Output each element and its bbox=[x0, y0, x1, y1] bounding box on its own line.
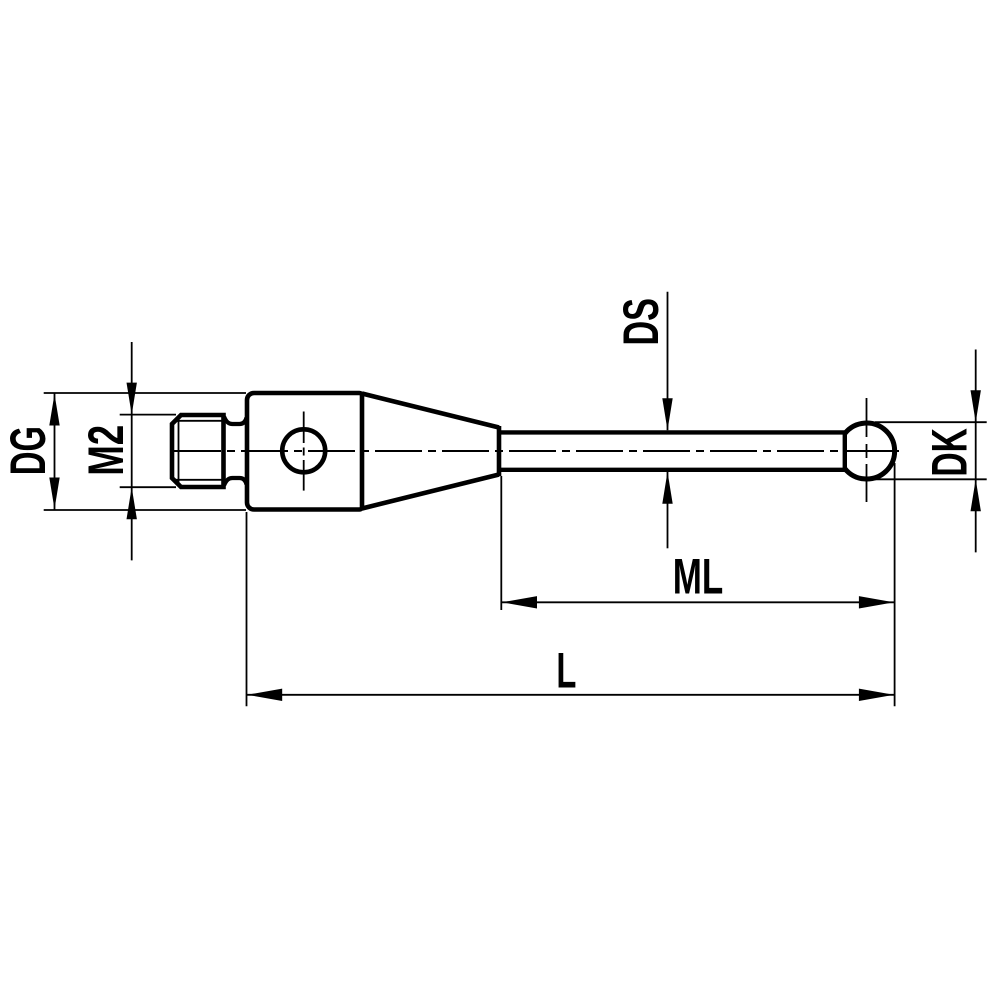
svg-text:L: L bbox=[556, 643, 576, 699]
thread minor diameter line top bbox=[173, 420, 223, 422]
dimension DK extension line top bbox=[875, 421, 987, 423]
dimension DG line bbox=[54, 393, 56, 510]
ball (probe tip sphere) bbox=[845, 423, 895, 479]
dimension ML line bbox=[501, 601, 894, 603]
dimension DS line lower bbox=[667, 472, 669, 549]
dimension M2 line bbox=[131, 342, 133, 560]
ball vertical centerline bbox=[866, 398, 868, 502]
dimension DG arrow down bbox=[49, 478, 59, 510]
svg-text:M2: M2 bbox=[78, 425, 134, 476]
thread M2 (stud outline with chamfered tip) bbox=[172, 415, 224, 487]
dimension ML arrow right bbox=[859, 596, 894, 608]
dimension DS arrow up bbox=[662, 472, 672, 504]
dimension DG extension line bottom bbox=[44, 509, 246, 511]
svg-text:DG: DG bbox=[0, 426, 56, 475]
dimension DG extension line top bbox=[44, 392, 246, 394]
neck / undercut groove between thread and body bbox=[224, 417, 247, 486]
svg-text:DK: DK bbox=[922, 428, 978, 477]
thread minor diameter line bottom bbox=[173, 479, 223, 481]
svg-text:DS: DS bbox=[613, 298, 669, 346]
dimension DK extension line bottom bbox=[875, 478, 987, 480]
centerline (main horizontal axis, dash-dot) bbox=[174, 450, 899, 452]
hole (cross hole in body) bbox=[282, 429, 325, 472]
dimension M2 extension line top bbox=[120, 414, 176, 416]
dimension DK arrow down (above) bbox=[971, 390, 981, 422]
dimension M2 arrow down (above) bbox=[127, 383, 137, 415]
dimension M2 arrow up (below) bbox=[127, 487, 137, 519]
dimension DK line bbox=[975, 350, 977, 553]
dimension L arrow left bbox=[247, 689, 282, 701]
dimension L arrow right bbox=[859, 689, 894, 701]
dimension L line bbox=[247, 694, 895, 696]
shaft (stylus stem) bbox=[499, 432, 846, 469]
thread chamfer edge line bbox=[178, 420, 180, 483]
dimension L extension line left bbox=[246, 512, 248, 706]
dimension M2 extension line bottom bbox=[120, 486, 176, 488]
dimension ML arrow left bbox=[502, 596, 537, 608]
hole vertical centerline bbox=[303, 412, 305, 491]
dimension DG arrow up bbox=[49, 394, 59, 426]
dimension DS line upper bbox=[667, 292, 669, 431]
body (holder block) bbox=[247, 393, 362, 510]
dimension ML extension line left bbox=[500, 476, 502, 610]
svg-text:ML: ML bbox=[673, 549, 724, 605]
dimension DS arrow down bbox=[662, 398, 672, 430]
dimension DK arrow up (below) bbox=[971, 479, 981, 511]
taper (cone from body to shaft) bbox=[362, 394, 499, 509]
shaft end face (chord at ball) bbox=[843, 432, 847, 469]
dimension ML/L right extension line bbox=[894, 463, 896, 706]
